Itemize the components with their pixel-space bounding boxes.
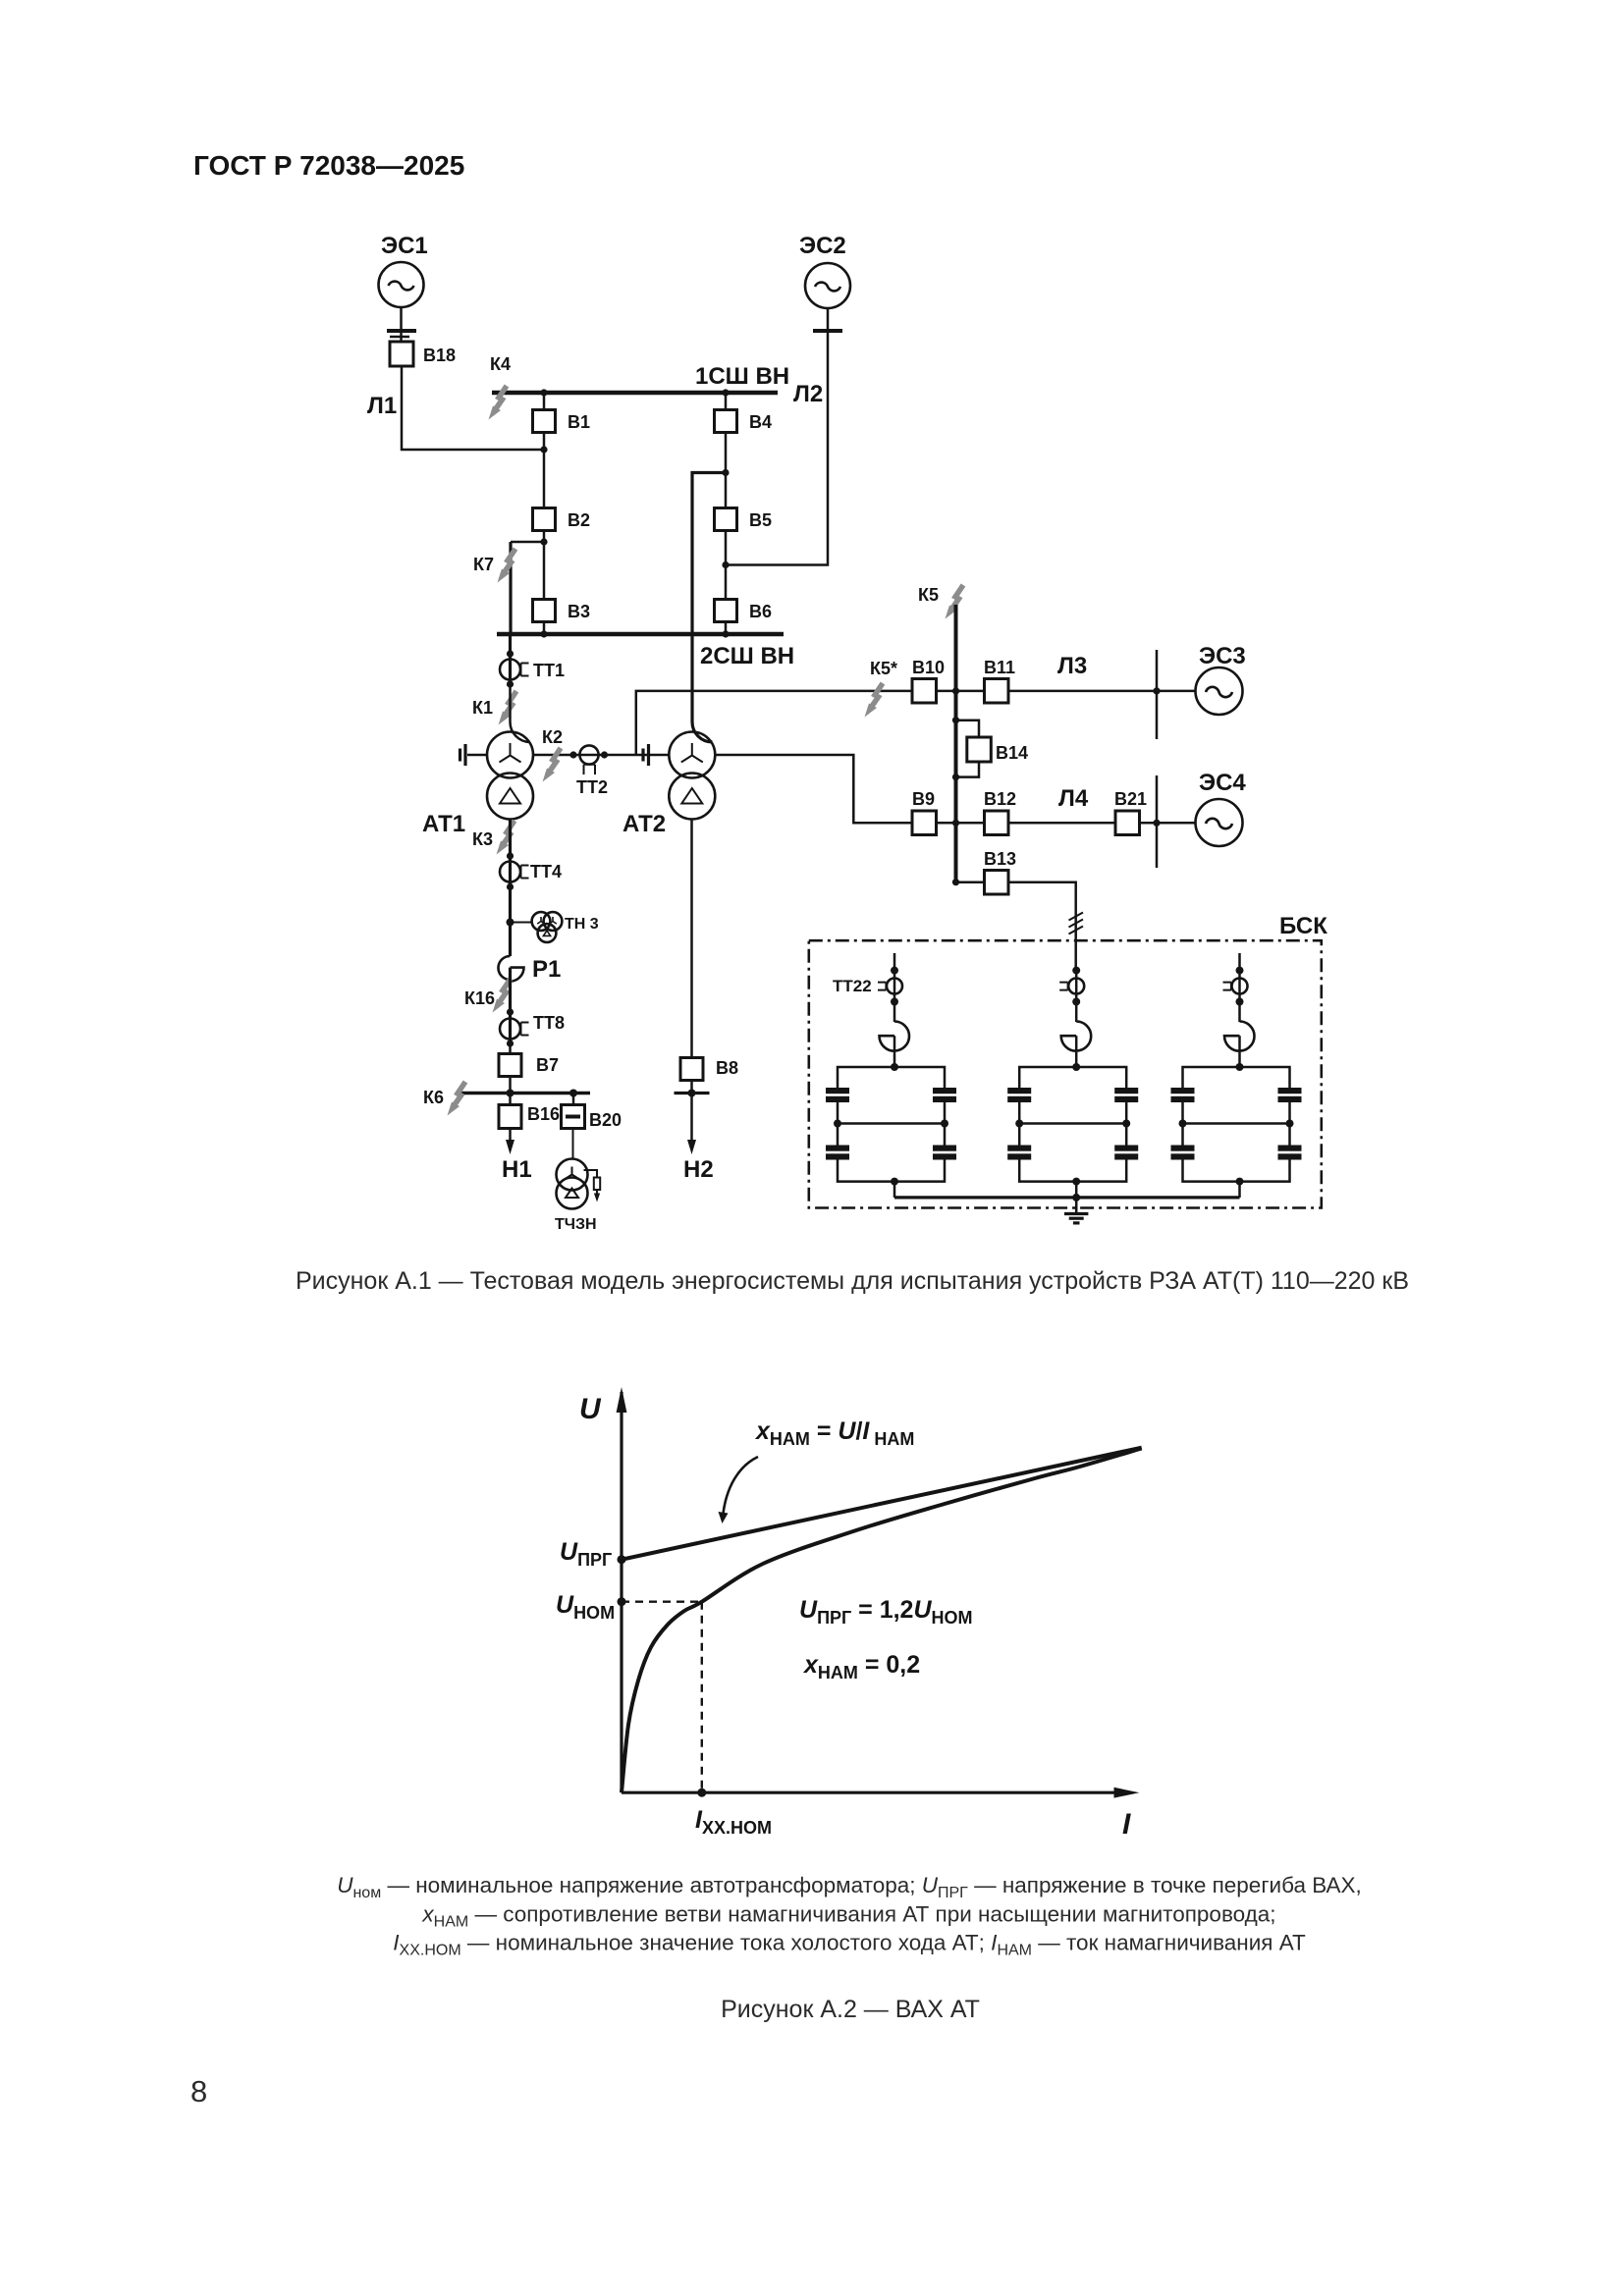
svg-text:IХХ.НОМ: IХХ.НОМ bbox=[695, 1806, 772, 1838]
system terminal bar under ЭС2 bbox=[813, 329, 842, 333]
system terminal bars under ЭС1 bbox=[387, 331, 416, 337]
breaker В3 bbox=[533, 600, 591, 622]
CT ТТ2 bbox=[576, 745, 608, 797]
svg-text:U: U bbox=[579, 1393, 602, 1425]
wire К5* branch from ТТ2 wire up to Л3 bbox=[636, 691, 912, 755]
wire В7 to К6 bar bbox=[509, 1077, 512, 1094]
wire Л1 from В18 to node under В1 bbox=[402, 366, 544, 450]
svg-text:ТТ8: ТТ8 bbox=[533, 1013, 565, 1033]
svg-text:xНАМ = U/I НАМ: xНАМ = U/I НАМ bbox=[754, 1417, 914, 1449]
reactor group 2 bbox=[1061, 1022, 1092, 1051]
svg-text:БСК: БСК bbox=[1279, 913, 1327, 939]
svg-text:Рисунок А.2 — ВАХ АТ: Рисунок А.2 — ВАХ АТ bbox=[721, 1996, 980, 2023]
svg-text:UНОМ: UНОМ bbox=[556, 1591, 615, 1623]
source ЭС2 bbox=[799, 233, 850, 308]
node В4 bottom tap bbox=[722, 469, 729, 476]
dashed drop I ХХ.НОМ bbox=[701, 1602, 703, 1793]
wire to В13 bbox=[956, 881, 985, 883]
wires group 2 middle bbox=[1019, 1102, 1126, 1146]
svg-text:IХХ.НОМ — номинальное значение: IХХ.НОМ — номинальное значение тока холо… bbox=[393, 1931, 1306, 1959]
node earth bus center bbox=[1072, 1194, 1080, 1201]
capacitor group 1 upper-left bbox=[826, 1088, 849, 1102]
load arrow Н2 bbox=[683, 1140, 714, 1183]
svg-text:В12: В12 bbox=[984, 789, 1016, 809]
earth bus of БСК bbox=[894, 1196, 1240, 1199]
point I ХХ.НОМ bbox=[697, 1789, 706, 1797]
node Л1-В1 junction bbox=[540, 446, 547, 453]
svg-text:В10: В10 bbox=[912, 658, 945, 677]
wire В8 down bbox=[690, 1081, 693, 1142]
svg-text:В14: В14 bbox=[996, 743, 1028, 763]
svg-text:К2: К2 bbox=[542, 727, 563, 747]
H-bridge group 1 middle rail bbox=[838, 1122, 945, 1125]
breaker В8 bbox=[680, 1058, 738, 1081]
reactor group 3 bbox=[1224, 1022, 1255, 1051]
node busbar-В4 bbox=[722, 389, 729, 396]
node above ТТ8 bbox=[507, 1008, 514, 1015]
svg-text:1СШ ВН: 1СШ ВН bbox=[695, 363, 789, 390]
I axis bbox=[622, 1788, 1139, 1841]
capacitor group 3 feeder stub bbox=[1238, 953, 1241, 971]
svg-text:Р1: Р1 bbox=[532, 956, 561, 983]
wire into АТ2 with curve bbox=[692, 634, 713, 742]
node above ТТ4 bbox=[507, 852, 514, 859]
svg-text:ЭС4: ЭС4 bbox=[1199, 770, 1246, 796]
point U НОМ bbox=[618, 1597, 626, 1606]
tick bar under В8 bbox=[675, 1092, 710, 1095]
svg-text:В4: В4 bbox=[749, 412, 772, 432]
svg-text:ТТ4: ТТ4 bbox=[530, 862, 562, 881]
breaker В12 bbox=[984, 789, 1016, 835]
wire ТТ8 to В7 bbox=[509, 1040, 512, 1055]
wire В3 to 2СШ bbox=[543, 622, 546, 635]
capacitor group 2 upper-left bbox=[1007, 1088, 1031, 1102]
node В13 tap bbox=[952, 879, 959, 885]
wire tap to К7 line bbox=[511, 541, 544, 544]
svg-text:Л1: Л1 bbox=[367, 393, 397, 419]
breaker В2 bbox=[533, 508, 591, 531]
breaker В14 bbox=[967, 737, 1028, 763]
wire В13 to БСК bbox=[1008, 882, 1076, 971]
node К6-В20 bbox=[569, 1090, 577, 1097]
svg-text:8: 8 bbox=[190, 2074, 207, 2109]
point U ПРГ bbox=[618, 1555, 626, 1564]
svg-text:Н2: Н2 bbox=[683, 1156, 714, 1183]
U axis bbox=[579, 1387, 626, 1792]
node group 3 top bbox=[1236, 967, 1244, 975]
curved arrow to tangent bbox=[719, 1457, 759, 1523]
breaker В4 bbox=[715, 393, 773, 433]
wire to ТН3 bbox=[511, 922, 533, 924]
svg-text:ТТ1: ТТ1 bbox=[533, 661, 565, 680]
capacitor group 2 upper-right bbox=[1114, 1088, 1138, 1102]
fault К3 lightning bbox=[497, 821, 515, 855]
breaker В10 bbox=[912, 658, 945, 703]
line break marks bbox=[1069, 913, 1084, 934]
svg-text:ТТ2: ТТ2 bbox=[576, 777, 608, 797]
load arrow Н1 bbox=[502, 1129, 532, 1184]
wire В6 to 2СШ bbox=[725, 622, 728, 635]
capacitor group 2 lower-right bbox=[1114, 1146, 1138, 1160]
CT group 2 bbox=[1059, 979, 1084, 994]
node under ТТ8 bbox=[507, 1040, 514, 1046]
wire В14 loop bbox=[956, 721, 980, 777]
wire group1 drop to earth bus bbox=[893, 1182, 896, 1198]
autotransformer АТ1 bbox=[422, 732, 533, 838]
svg-text:UПРГ: UПРГ bbox=[560, 1538, 612, 1570]
node busbar-В1 bbox=[540, 389, 547, 396]
svg-text:В11: В11 bbox=[984, 658, 1015, 677]
svg-text:Л2: Л2 bbox=[793, 381, 823, 407]
svg-text:Л4: Л4 bbox=[1058, 785, 1089, 812]
magnetization curve bbox=[622, 1449, 1142, 1793]
svg-text:К16: К16 bbox=[464, 988, 495, 1008]
H-bridge group 2 bottom rail bbox=[1019, 1160, 1126, 1182]
capacitor group 1 lower-left bbox=[826, 1146, 849, 1160]
breaker В16 bbox=[499, 1094, 560, 1129]
capacitor group 3 lower-left bbox=[1171, 1146, 1195, 1160]
wire К2/ТТ2 between АТ1 and АТ2 bbox=[533, 754, 669, 757]
svg-text:В16: В16 bbox=[527, 1104, 560, 1124]
svg-text:В6: В6 bbox=[749, 602, 772, 621]
node under В8 bbox=[688, 1090, 696, 1097]
node Л4 on section bus bbox=[952, 820, 959, 827]
wire ЭС1 stem bbox=[400, 307, 403, 342]
CT group 3 bbox=[1223, 979, 1248, 994]
terminal bar ЭС3 bbox=[1156, 650, 1159, 739]
svg-text:К4: К4 bbox=[490, 354, 511, 374]
svg-text:Л3: Л3 bbox=[1057, 653, 1087, 679]
svg-text:В13: В13 bbox=[984, 849, 1016, 869]
svg-text:ЭС1: ЭС1 bbox=[381, 233, 428, 259]
wire group2 drop to ground bbox=[1075, 1182, 1078, 1213]
grounding transformer ТЧЗН bbox=[555, 1159, 597, 1234]
CT ТТ22 bbox=[833, 977, 902, 995]
CT ТТ1 bbox=[500, 660, 565, 681]
svg-text:Н1: Н1 bbox=[502, 1156, 532, 1183]
H-bridge group 1 bottom rail bbox=[838, 1160, 945, 1182]
wire АТ1 bottom to ТТ4 bbox=[509, 820, 512, 887]
source ЭС4 bbox=[1196, 770, 1247, 846]
svg-text:К5*: К5* bbox=[870, 659, 897, 678]
breaker В18 bbox=[390, 342, 456, 366]
svg-text:В18: В18 bbox=[423, 346, 456, 365]
reactor group 1 bbox=[880, 1022, 910, 1051]
fault К1 lightning bbox=[499, 691, 517, 725]
wire В10-В11 bbox=[937, 690, 985, 693]
wire Л4 to ЭС4 bbox=[1140, 822, 1196, 825]
wire В20 to ТЧЗН bbox=[572, 1129, 574, 1160]
capacitor group 1 upper-right bbox=[933, 1088, 956, 1102]
svg-text:В8: В8 bbox=[716, 1058, 738, 1078]
wire АТ2 right to Л4 bbox=[715, 755, 912, 823]
wire В5-В6 bbox=[725, 531, 728, 601]
fault К5* lightning bbox=[865, 683, 884, 718]
svg-text:Рисунок А.1 — Тестовая модель: Рисунок А.1 — Тестовая модель энергосист… bbox=[296, 1267, 1409, 1295]
autotransformer АТ2 bbox=[623, 732, 715, 838]
source ЭС3 bbox=[1196, 643, 1246, 715]
breaker В6 bbox=[715, 600, 773, 622]
wire into АТ1 with curve bbox=[511, 680, 531, 743]
svg-text:К1: К1 bbox=[472, 698, 493, 718]
ground stub АТ1 neutral bbox=[460, 744, 488, 766]
wire АТ2 bottom to В8 bbox=[690, 820, 693, 1059]
node left of ТТ2 bbox=[569, 751, 576, 758]
neutral resistor of ТЧЗН bbox=[584, 1170, 601, 1202]
wire group3 drop to earth bus bbox=[1238, 1182, 1241, 1198]
svg-text:В21: В21 bbox=[1114, 789, 1147, 809]
node ТН3 tap bbox=[507, 919, 514, 927]
busbar 2СШ ВН bbox=[497, 632, 784, 637]
svg-text:К5: К5 bbox=[918, 585, 939, 605]
H-bridge group 2 top rail bbox=[1019, 1067, 1126, 1088]
svg-text:UПРГ = 1,2UНОМ: UПРГ = 1,2UНОМ bbox=[799, 1596, 973, 1628]
node В14 upper tap bbox=[952, 717, 959, 723]
svg-text:ТТ22: ТТ22 bbox=[833, 977, 872, 995]
svg-text:I: I bbox=[1122, 1808, 1131, 1841]
H-bridge group 3 middle rail bbox=[1183, 1122, 1290, 1125]
terminal bar ЭС4 bbox=[1156, 775, 1159, 868]
voltage transformer ТН3 bbox=[532, 912, 599, 942]
node group 1 top bbox=[891, 967, 898, 975]
svg-text:xНАМ — сопротивление ветви нам: xНАМ — сопротивление ветви намагничивани… bbox=[421, 1902, 1275, 1931]
ground stub АТ2 neutral bbox=[643, 744, 649, 766]
svg-text:xНАМ = 0,2: xНАМ = 0,2 bbox=[802, 1651, 920, 1682]
fault К7 lightning bbox=[498, 549, 516, 583]
node group 2 top bbox=[1072, 967, 1080, 975]
fault К6 lightning bbox=[448, 1082, 466, 1116]
breaker В21 bbox=[1114, 789, 1147, 835]
fault К16 lightning bbox=[493, 979, 512, 1013]
capacitor group 1 lower-right bbox=[933, 1146, 956, 1160]
capacitor group 2 lower-left bbox=[1007, 1146, 1031, 1160]
node group 2 under CT bbox=[1072, 998, 1080, 1006]
svg-text:2СШ ВН: 2СШ ВН bbox=[700, 643, 794, 669]
H-bridge group 1 top rail bbox=[838, 1067, 945, 1088]
ground symbol БСК bbox=[1064, 1214, 1088, 1223]
svg-text:В1: В1 bbox=[568, 412, 590, 432]
node group 1 under CT bbox=[891, 998, 898, 1006]
svg-text:АТ1: АТ1 bbox=[422, 811, 465, 837]
wires group 1 middle bbox=[838, 1102, 945, 1146]
fault bar К6 bbox=[460, 1092, 590, 1095]
breaker В7 bbox=[499, 1054, 559, 1077]
section bus К5 vertical bbox=[954, 605, 958, 882]
node В6-2СШ bbox=[722, 630, 729, 637]
svg-text:В9: В9 bbox=[912, 789, 935, 809]
svg-text:К6: К6 bbox=[423, 1088, 444, 1107]
node 2СШ-АТ1 trunk bbox=[507, 650, 514, 657]
switch В20 bbox=[562, 1094, 623, 1131]
node group 3 under CT bbox=[1236, 998, 1244, 1006]
wire В4-В5 bbox=[725, 433, 728, 509]
capacitor group 1 feeder stub bbox=[893, 953, 896, 971]
node К6-В16 bbox=[507, 1090, 514, 1097]
breaker В5 bbox=[715, 508, 773, 531]
svg-text:Uном — номинальное напряжение: Uном — номинальное напряжение автотрансф… bbox=[337, 1873, 1362, 1901]
capacitor group 3 upper-left bbox=[1171, 1088, 1195, 1102]
svg-text:ЭС3: ЭС3 bbox=[1199, 643, 1246, 669]
svg-text:В5: В5 bbox=[749, 510, 772, 530]
busbar 1СШ ВН bbox=[492, 391, 778, 396]
svg-text:ТН 3: ТН 3 bbox=[565, 916, 599, 933]
CT ТТ4 bbox=[500, 862, 562, 882]
capacitor group 3 upper-right bbox=[1278, 1088, 1302, 1102]
wire В1-В2 bbox=[543, 433, 546, 509]
breaker В9 bbox=[912, 789, 937, 835]
wires group 3 middle bbox=[1183, 1102, 1290, 1146]
svg-text:В2: В2 bbox=[568, 510, 590, 530]
svg-text:ТЧЗН: ТЧЗН bbox=[555, 1216, 597, 1233]
node ЭС3 terminal bbox=[1153, 687, 1160, 694]
dashed level U НОМ bbox=[622, 1600, 702, 1602]
svg-text:К3: К3 bbox=[472, 829, 493, 849]
svg-text:В20: В20 bbox=[589, 1110, 622, 1130]
fault К5 lightning bbox=[946, 585, 964, 619]
wire В2-В3 bbox=[543, 531, 546, 601]
wire К7 vertical to 2СШ bbox=[509, 542, 512, 634]
node ЭС4 terminal bbox=[1153, 820, 1160, 827]
capacitor group 3 lower-right bbox=[1278, 1146, 1302, 1160]
wire В9-В12 bbox=[937, 822, 985, 825]
tangent line x НАМ bbox=[622, 1448, 1142, 1560]
breaker В1 bbox=[533, 393, 591, 433]
fault К4 lightning bbox=[489, 386, 508, 420]
node В14 lower tap bbox=[952, 774, 959, 780]
node right of ТТ2 bbox=[601, 751, 608, 758]
capacitor bank enclosure dashed box bbox=[809, 940, 1322, 1207]
breaker В13 bbox=[984, 849, 1016, 894]
svg-text:ГОСТ Р 72038—2025: ГОСТ Р 72038—2025 bbox=[193, 150, 464, 181]
source ЭС1 bbox=[379, 233, 428, 307]
svg-text:АТ2: АТ2 bbox=[623, 811, 666, 837]
svg-text:В3: В3 bbox=[568, 602, 590, 621]
node В2 bottom tap bbox=[540, 538, 547, 545]
wire В12-В21 bbox=[1008, 822, 1115, 825]
wire Р1 to ТТ8 bbox=[509, 968, 512, 1043]
wire ЭС2 to node between В5 and В6 bbox=[726, 308, 828, 565]
H-bridge group 3 bottom rail bbox=[1183, 1160, 1290, 1182]
breaker В11 bbox=[984, 658, 1015, 703]
wire В4 tap to АТ2 feeder bbox=[692, 473, 726, 635]
node В3-2СШ bbox=[540, 630, 547, 637]
node В5 bottom tap (ЭС2) bbox=[722, 561, 729, 568]
H-bridge group 3 top rail bbox=[1183, 1067, 1290, 1088]
CT ТТ8 bbox=[500, 1013, 565, 1040]
node under ТТ4 bbox=[507, 883, 514, 890]
wire Л3 to ЭС3 bbox=[1008, 690, 1196, 693]
H-bridge group 2 middle rail bbox=[1019, 1122, 1126, 1125]
node Л3 on section bus bbox=[952, 687, 959, 694]
reactor Р1 bbox=[499, 956, 562, 983]
svg-text:К7: К7 bbox=[473, 555, 494, 574]
svg-text:В7: В7 bbox=[536, 1055, 559, 1075]
fault К2 lightning bbox=[543, 748, 562, 782]
svg-text:ЭС2: ЭС2 bbox=[799, 233, 846, 259]
wire ТТ4 to Р1 bbox=[509, 882, 512, 957]
node under ТТ1 bbox=[507, 680, 514, 687]
wire trunk 2СШ to ТТ1 bbox=[509, 634, 512, 684]
